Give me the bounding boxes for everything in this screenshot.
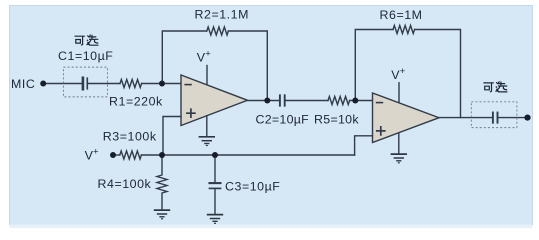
wire R2 feedback loop [162,31,207,84]
node V+ bias terminal [110,152,116,158]
capacitor C1 [82,78,85,89]
svg-text:MIC: MIC [11,77,35,91]
capacitor C4 output optional [492,113,494,123]
resistor R5 [328,97,350,105]
svg-text:R1=220k: R1=220k [109,94,163,108]
wire V+ rail to R3 [113,154,120,156]
wire bias rail [162,154,355,156]
capacitor C2 [279,95,281,105]
svg-text:C1=10µF: C1=10µF [58,49,113,63]
wire U2 non-inverting input [355,136,373,155]
svg-text:R4=100k: R4=100k [98,177,152,191]
dashed box C1 optional [63,67,107,97]
resistor R4 [157,155,167,210]
resistor R1 [120,80,142,88]
wire U2 ground stem [398,133,400,154]
wire C1 to R1 [89,83,121,85]
wire to output terminal [499,117,526,119]
svg-text:C3=10µF: C3=10µF [225,179,280,193]
svg-text:R6=1M: R6=1M [380,8,423,22]
resistor R6 [393,26,415,34]
resistor R2 [207,27,229,35]
ground U1 [199,137,215,146]
ground C3 [207,215,223,224]
dashed box output cap optional [471,102,517,128]
resistor R3 [120,151,142,159]
wire R1 to op-amp U1 inverting input [142,83,181,85]
node R5/R6 junction [352,98,358,104]
node MIC terminal [40,81,46,87]
wire R3 to node [141,154,162,156]
node C3 junction [212,152,218,158]
svg-text:R3=100k: R3=100k [103,129,157,143]
op-amp U2 [373,93,440,143]
node U1 output junction [264,98,270,104]
node R3/R4 junction [159,152,165,158]
label optional (kexuan) left [75,35,99,46]
node output terminal [524,115,530,121]
svg-text:+: + [93,146,99,157]
svg-text:C2=10µF R5=10k: C2=10µF R5=10k [256,113,360,127]
ground R4 [154,210,170,219]
label optional (kexuan) right [483,81,507,92]
svg-text:R2=1.1M: R2=1.1M [195,8,249,22]
wire U1 non-inverting input [163,117,181,156]
wire R6 to U2 output [415,30,461,118]
capacitor C3 [214,155,216,182]
wire MIC to C1 [43,83,82,85]
wire V+ stem U1 [206,66,208,86]
wire V+ stem U2 [398,83,400,102]
svg-text:+: + [205,49,211,60]
wire U2 output [439,117,492,119]
wire U1 output to C2 [248,100,279,102]
wire R2 to U1 output [228,31,267,101]
node R1/R2 junction [159,81,165,87]
wire U1 ground stem [206,116,208,137]
wire R6 feedback loop [355,30,393,101]
op-amp U1 [181,75,248,126]
wire R5 to op-amp U2 inverting input [350,100,373,102]
ground U2 [391,154,407,163]
wire C2 to R5 [286,100,328,102]
svg-text:+: + [400,66,406,77]
